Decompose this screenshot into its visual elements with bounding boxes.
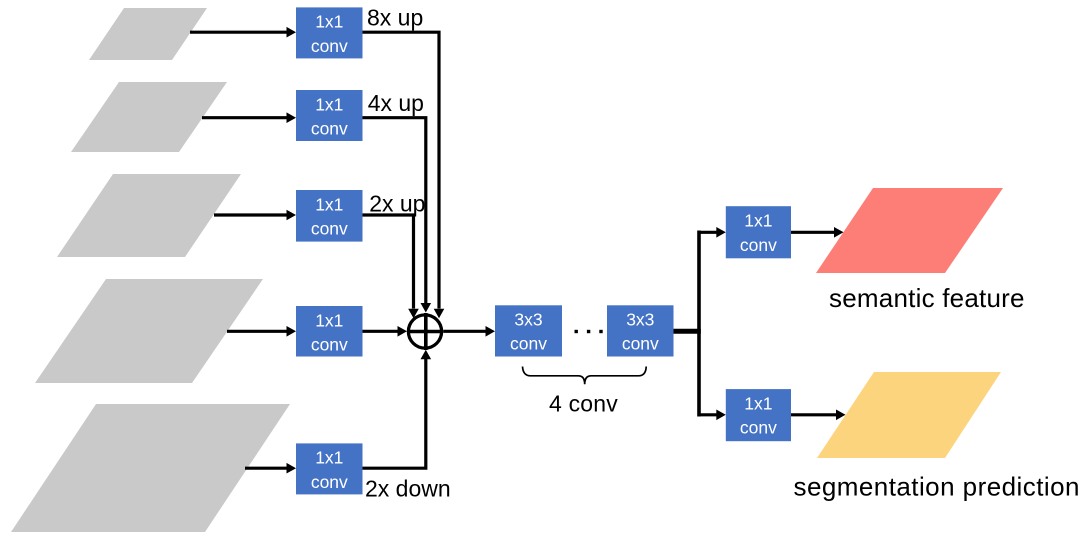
svg-text:conv: conv [510, 334, 547, 354]
wire junction to conv E1 [699, 227, 726, 238]
sum node (circle with plus) [407, 313, 443, 350]
wire C2 to sum node (4x up route) [363, 118, 432, 313]
svg-text:1x1: 1x1 [315, 94, 343, 114]
wire P5 to conv C5 [245, 463, 296, 474]
svg-text:conv: conv [622, 334, 659, 354]
segmentation prediction map (yellow parallelogram) [817, 372, 1001, 458]
3x3 conv block D2 [607, 305, 674, 356]
wire C4 to sum node [363, 326, 408, 337]
wire C3 to sum node (2x up route) [363, 215, 419, 318]
wire P4 to conv C4 [227, 326, 296, 337]
1x1 conv block C1 [296, 7, 363, 58]
svg-text:conv: conv [311, 119, 348, 139]
ellipsis dots between conv blocks [575, 330, 603, 333]
svg-text:2x down: 2x down [365, 475, 451, 501]
feature map P1 (smallest gray parallelogram) [89, 8, 207, 60]
wire C1 to sum node (8x up route) [363, 32, 445, 318]
1x1 conv block C4 [296, 306, 363, 357]
svg-text:conv: conv [311, 335, 348, 355]
svg-text:3x3: 3x3 [626, 309, 654, 329]
svg-text:semantic feature: semantic feature [829, 283, 1025, 313]
svg-text:1x1: 1x1 [744, 211, 772, 231]
svg-text:1x1: 1x1 [315, 448, 343, 468]
semantic feature map (red parallelogram) [816, 188, 1003, 273]
1x1 conv block C2 [296, 90, 363, 141]
svg-text:1x1: 1x1 [315, 310, 343, 330]
svg-text:conv: conv [311, 472, 348, 492]
feature map P4 [35, 279, 263, 383]
svg-text:conv: conv [311, 36, 348, 56]
svg-text:conv: conv [311, 219, 348, 239]
svg-text:conv: conv [740, 418, 777, 438]
svg-text:2x up: 2x up [369, 191, 425, 217]
wire D2 to split junction [674, 329, 701, 334]
svg-text:8x up: 8x up [367, 5, 423, 31]
1x1 conv block C3 [296, 190, 363, 242]
wire C5 to sum node (2x down route) [363, 350, 432, 468]
svg-text:4x up: 4x up [368, 90, 424, 116]
feature map P2 [71, 82, 227, 152]
svg-text:1x1: 1x1 [315, 12, 343, 32]
wire junction to conv E2 [699, 410, 726, 421]
svg-text:1x1: 1x1 [744, 393, 772, 413]
feature map P5 (largest gray parallelogram) [11, 404, 290, 532]
wire P2 to conv C2 [202, 112, 296, 123]
svg-text:1x1: 1x1 [315, 194, 343, 214]
feature map P3 [57, 174, 241, 257]
wire P1 to conv C1 [190, 27, 296, 38]
wire P3 to conv C3 [214, 210, 296, 221]
3x3 conv block D1 [495, 305, 562, 356]
wire E2 to segmentation map [791, 410, 846, 421]
svg-text:4 conv: 4 conv [549, 391, 618, 417]
wire E1 to semantic feature map [791, 227, 844, 238]
wire sum node to conv D1 [443, 326, 495, 337]
svg-text:segmentation prediction: segmentation prediction [794, 471, 1080, 501]
svg-text:3x3: 3x3 [514, 309, 542, 329]
brace under conv blocks [523, 367, 647, 385]
split junction vertical wire [697, 231, 701, 417]
svg-text:conv: conv [740, 235, 777, 255]
1x1 conv block E2 (segmentation branch) [726, 389, 791, 441]
1x1 conv block C5 [296, 443, 363, 494]
1x1 conv block E1 (semantic branch) [726, 206, 791, 258]
